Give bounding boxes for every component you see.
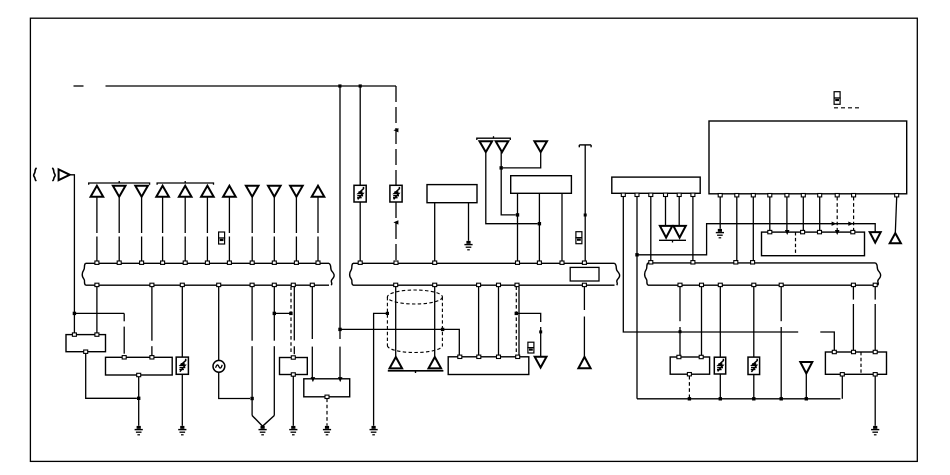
wire F3 to node J16: [719, 374, 721, 399]
connector strip bus3: [648, 262, 876, 264]
pin arrow into B10 pin2: [338, 377, 343, 382]
connector C2 (double square): [576, 232, 582, 244]
wire T11 to connector strip: [317, 197, 319, 233]
relay box K2: [66, 335, 106, 352]
wire J13 to D8: [516, 313, 540, 322]
connector C4 (double square): [528, 342, 534, 353]
wire F1 to ground G1: [181, 374, 183, 426]
wire bus1 right leg of V: [273, 286, 275, 340]
wire T2 to connector strip: [118, 197, 120, 233]
control unit B6: [709, 121, 907, 194]
wire B6 pin7 to B7: [819, 197, 821, 230]
wire B10 to ground G4: [326, 399, 328, 426]
ground G1: [178, 426, 186, 435]
ground G4: [323, 426, 331, 435]
box B10: [304, 379, 350, 397]
wire T1 to connector strip: [96, 197, 98, 233]
wire F6 to bus2 (dashed): [395, 202, 397, 261]
connector arrow U1 (up): [890, 233, 901, 243]
wire J3 branch to K3: [74, 312, 124, 314]
pin arrow into B10 pin1: [311, 377, 316, 382]
connector strip bus1: [86, 262, 329, 264]
node J3: [73, 312, 76, 315]
connector arrow T6 (up): [201, 186, 214, 197]
ground G2: [259, 426, 267, 435]
wire T9 to connector strip: [273, 197, 275, 233]
wire bus1 to B10 pin1: [311, 286, 313, 339]
wire bus2 to U2: [395, 286, 397, 357]
wire T1 to ground G6: [468, 203, 470, 241]
bracket over D1-D2: [477, 138, 511, 140]
box T1: [427, 185, 477, 203]
wire T4 to connector strip: [162, 197, 164, 233]
relay box K3: [106, 357, 173, 375]
wire K3 to ground G0: [138, 377, 140, 426]
connector arrow D4 (down): [660, 226, 672, 238]
wire B5 pin3 to bus3: [650, 196, 652, 261]
wire J6 to J7: [274, 312, 291, 314]
wire bus2 to B4 pin2: [478, 286, 480, 355]
node J16: [719, 397, 722, 400]
wire D3 to node J11: [503, 152, 541, 168]
wire bus1 to K4 (shield drain, dashed): [290, 286, 292, 354]
box B4: [448, 357, 529, 375]
ground G6: [464, 241, 472, 250]
wire B9 to node J15 (dashed): [688, 376, 690, 399]
wire top supply stub: [74, 85, 84, 87]
wire F5 to bus2: [359, 202, 361, 261]
wire top supply line: [106, 85, 397, 87]
node J14: [635, 253, 638, 256]
wire B6 pin9 to B7 (dashed): [853, 197, 855, 230]
wire T10 to connector strip: [295, 197, 297, 233]
fuse F6: [390, 185, 402, 202]
wire bus1 to K3 pin2: [151, 286, 153, 340]
ground G7: [716, 229, 724, 238]
connector arrow on wire (left): [393, 128, 398, 132]
wire D7 to node J19: [805, 374, 807, 399]
node J4: [137, 397, 140, 400]
wire T6 to connector strip: [206, 197, 208, 233]
connector C3 (double square): [834, 92, 840, 105]
wire bus1 to motor M1: [218, 286, 220, 360]
wire bus3 to node J18: [780, 286, 782, 321]
wire T2 pin3 to bus2: [561, 193, 563, 261]
box B5: [612, 177, 700, 193]
fuse F4: [748, 357, 760, 374]
connector arrow T11 (up): [312, 186, 325, 197]
wire bus1 to K2 pin2: [96, 286, 98, 333]
connector arrow T10 (down): [290, 186, 303, 197]
connector arrow U3 (up): [429, 357, 442, 368]
node J8: [338, 328, 341, 331]
ground G3: [289, 426, 297, 435]
connector arrow D6 (down): [870, 232, 881, 243]
wire B5 pin4 to D4: [665, 196, 667, 226]
connector arrow A1 (right-pointing): [59, 169, 70, 180]
antenna input symbol ( ): [34, 168, 37, 181]
wire B5 pin1 long route to B8: [623, 196, 798, 332]
wire shield to ground G5: [386, 312, 389, 315]
connector arrow T3 (down): [135, 186, 148, 197]
fuse F5: [354, 185, 366, 202]
wire K2 to node J4: [86, 353, 137, 398]
node J6: [273, 312, 276, 315]
node J10: [538, 222, 541, 225]
bracket over T4-T6: [157, 183, 213, 185]
connector mark on jog wire 2: [848, 222, 853, 226]
wire bus3 to fuse F4: [753, 286, 755, 357]
wire bus1 to fuse F1: [181, 286, 183, 357]
box B5 pins: [621, 193, 625, 196]
terminal T-bar: [579, 144, 591, 146]
wire bottom rail: [637, 398, 841, 400]
wire supply corner to fuse F6 (dashed): [395, 86, 397, 185]
wire J1 down to B10 pin2: [339, 86, 341, 339]
connector mark on B9 wire: [679, 330, 682, 333]
relay box K4: [280, 358, 308, 375]
wire bus3 to B8 pin3: [874, 286, 876, 299]
wire B5 pin5 to D5: [678, 196, 680, 226]
node J2 on supply line: [359, 84, 362, 87]
connector C1 (double square): [219, 232, 225, 244]
connector arrow T2 (down): [113, 186, 126, 197]
dashed stub under C3: [834, 107, 862, 109]
junction box B7: [762, 232, 865, 256]
node J11: [500, 166, 503, 169]
node J19: [805, 397, 808, 400]
wire bus2 to B4 pin4 (dashed): [515, 286, 517, 355]
wire bus1 left leg of V: [251, 286, 253, 340]
node J17: [752, 397, 755, 400]
node J15: [688, 397, 691, 400]
connector arrow D8 (down): [535, 357, 547, 368]
connector strip bus2: [353, 262, 615, 264]
ground G0: [135, 426, 143, 435]
box B9: [670, 357, 709, 374]
connector arrow U2 (up): [390, 357, 403, 368]
connector arrow D3 (down): [534, 141, 547, 152]
wire B5 pin6 to bus3: [692, 196, 694, 261]
wire T7 to connector strip: [228, 197, 230, 233]
wire D1 to node J10: [486, 152, 538, 224]
wire T3 to connector strip: [141, 197, 143, 233]
connector arrow T9 (down): [268, 186, 281, 197]
node J13: [515, 312, 518, 315]
wire bus3 to B9 pin2: [701, 286, 703, 355]
connector mark on T-bar wire: [584, 214, 587, 217]
wire J3 to relay box K2: [73, 313, 75, 333]
wire B5 pin2 down: [636, 196, 638, 398]
fuse F3: [714, 357, 725, 374]
connector mark on jog wire 1: [832, 222, 837, 226]
wire B6 pin10 to U1: [895, 197, 896, 233]
wire B6 pin4 to B7: [769, 197, 771, 230]
node J12: [516, 213, 519, 216]
connector arrow D1 (down): [480, 141, 493, 152]
wire T2 pin2 to bus2: [538, 193, 540, 261]
wire F4 to node J17: [753, 375, 755, 399]
wire bus3 to B8 pin2: [852, 286, 854, 299]
wire bus2 to U4: [583, 286, 585, 310]
node J7: [289, 312, 292, 315]
wire V merge to ground G2: [252, 416, 263, 427]
wire bus2 to U3: [434, 286, 436, 357]
node J18: [780, 397, 783, 400]
wire bus3 to fuse F3: [719, 286, 721, 357]
connector arrow T1 (up): [91, 186, 104, 197]
wire bus2 to B4 pin3: [498, 286, 500, 355]
wire B6 pin6 to B7: [802, 197, 804, 230]
wire B6 pin5 to B7: [786, 197, 788, 230]
control unit B6 pins: [718, 194, 722, 197]
node J9 (shield tie): [441, 328, 444, 331]
connector arrow T5 (up): [179, 186, 192, 197]
wire T2 pin1 to bus2: [517, 193, 519, 261]
wire J14 jog to D6: [637, 224, 875, 255]
box B8: [825, 352, 886, 374]
connector mark on D8 wire: [539, 330, 542, 333]
wire bus3 to B9 pin1: [679, 286, 681, 321]
wire T8 to connector strip: [251, 197, 253, 233]
motor M1: [213, 360, 225, 372]
wire T5 to connector strip: [184, 197, 186, 233]
wire T1 to bus2: [434, 203, 436, 261]
wire M1 to node J5: [219, 372, 250, 398]
connector arrow D2 (down): [496, 141, 509, 152]
ground G5: [370, 426, 378, 435]
connector arrow U4 (up): [578, 357, 590, 368]
junction box B7 pins: [768, 230, 772, 233]
wire B6 pin8 to B7 (dashed): [836, 197, 838, 230]
wire from A1: [70, 175, 75, 314]
wire K4 to ground G3: [292, 376, 294, 426]
connector arrow D7 (down): [800, 362, 812, 374]
bracket under D4-D5: [659, 239, 686, 241]
wire J8 to B4 pin1: [340, 329, 459, 355]
bracket over T1-T3: [89, 183, 150, 185]
wire B8 to ground G8: [874, 376, 876, 426]
box T2: [511, 176, 572, 194]
wire B6 pin2 to bus3: [736, 197, 738, 261]
connector arrow on wire (left) 2: [393, 220, 398, 224]
wire D2 through J11 to J12: [501, 152, 516, 215]
connector arrow T4 (up): [156, 186, 169, 197]
bracket under U2-U3: [388, 370, 444, 372]
wire bus1 to K4 (signal): [293, 286, 295, 340]
wire bus2 to B4 pin4 (signal): [518, 286, 520, 355]
node J5: [250, 397, 253, 400]
shield cylinder: [387, 290, 442, 304]
wire B6 pin3 to bus3: [752, 197, 754, 261]
ground G8: [871, 426, 879, 435]
wire T-bar to bus2: [584, 146, 586, 262]
wire J2 down to fuse F5: [359, 86, 361, 185]
fuse F1: [176, 357, 188, 374]
node J1 on supply line: [338, 84, 341, 87]
connector arrow D5 (down): [673, 226, 685, 238]
connector arrow T7 (up): [223, 186, 236, 197]
connector arrow T8 (down): [246, 186, 259, 197]
wire B6 pin1 to ground G7: [719, 197, 721, 229]
